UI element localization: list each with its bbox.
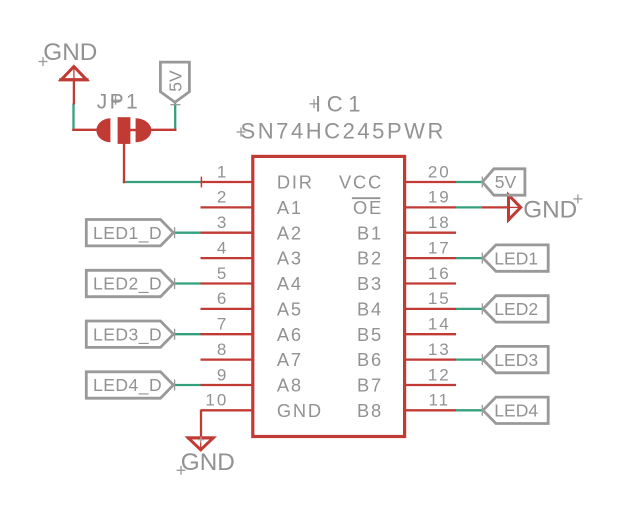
svg-text:16: 16 xyxy=(428,264,451,283)
svg-text:12: 12 xyxy=(428,365,451,384)
svg-text:A2: A2 xyxy=(277,222,303,243)
svg-text:17: 17 xyxy=(428,238,451,257)
svg-text:7: 7 xyxy=(217,315,228,334)
svg-text:B8: B8 xyxy=(357,400,383,421)
svg-text:LED4: LED4 xyxy=(494,401,538,421)
svg-text:A5: A5 xyxy=(277,299,303,320)
svg-text:GND: GND xyxy=(277,400,323,421)
svg-text:5V: 5V xyxy=(166,70,186,92)
svg-text:JP1: JP1 xyxy=(97,91,140,114)
svg-text:GND: GND xyxy=(523,197,577,224)
svg-text:10: 10 xyxy=(205,391,228,410)
svg-text:20: 20 xyxy=(428,162,451,181)
svg-text:B7: B7 xyxy=(357,375,383,396)
svg-text:5: 5 xyxy=(217,264,228,283)
svg-text:VCC: VCC xyxy=(339,172,383,193)
svg-text:4: 4 xyxy=(217,238,228,257)
svg-text:IC1: IC1 xyxy=(315,92,366,117)
svg-text:18: 18 xyxy=(428,213,451,232)
svg-text:B4: B4 xyxy=(357,299,383,320)
svg-text:A3: A3 xyxy=(277,248,303,269)
svg-text:A8: A8 xyxy=(277,375,303,396)
svg-text:B2: B2 xyxy=(357,248,383,269)
svg-text:B3: B3 xyxy=(357,273,383,294)
svg-text:2: 2 xyxy=(217,188,228,207)
svg-text:B1: B1 xyxy=(357,222,383,243)
svg-text:9: 9 xyxy=(217,365,228,384)
svg-text:11: 11 xyxy=(428,391,450,410)
svg-text:B5: B5 xyxy=(357,324,383,345)
svg-text:14: 14 xyxy=(428,315,451,334)
svg-text:LED2_D: LED2_D xyxy=(93,274,162,295)
svg-text:LED2: LED2 xyxy=(494,299,538,319)
svg-text:6: 6 xyxy=(217,289,228,308)
svg-text:A1: A1 xyxy=(277,197,303,218)
svg-text:B6: B6 xyxy=(357,349,383,370)
svg-text:19: 19 xyxy=(428,188,451,207)
svg-text:13: 13 xyxy=(428,340,451,359)
svg-text:SN74HC245PWR: SN74HC245PWR xyxy=(241,118,446,143)
svg-text:LED1: LED1 xyxy=(494,248,538,268)
svg-text:OE: OE xyxy=(353,197,383,218)
svg-text:A4: A4 xyxy=(277,273,303,294)
svg-text:15: 15 xyxy=(428,289,451,308)
svg-text:5V: 5V xyxy=(495,172,517,192)
svg-text:LED4_D: LED4_D xyxy=(93,375,162,396)
svg-text:8: 8 xyxy=(217,340,228,359)
svg-text:GND: GND xyxy=(181,449,235,476)
svg-text:LED3_D: LED3_D xyxy=(93,324,162,345)
svg-text:3: 3 xyxy=(217,213,228,232)
svg-text:LED3: LED3 xyxy=(494,350,538,370)
svg-text:1: 1 xyxy=(217,162,228,181)
svg-text:DIR: DIR xyxy=(277,172,314,193)
svg-text:A7: A7 xyxy=(277,349,303,370)
svg-text:LED1_D: LED1_D xyxy=(93,223,162,244)
svg-text:A6: A6 xyxy=(277,324,303,345)
svg-text:GND: GND xyxy=(43,39,97,66)
